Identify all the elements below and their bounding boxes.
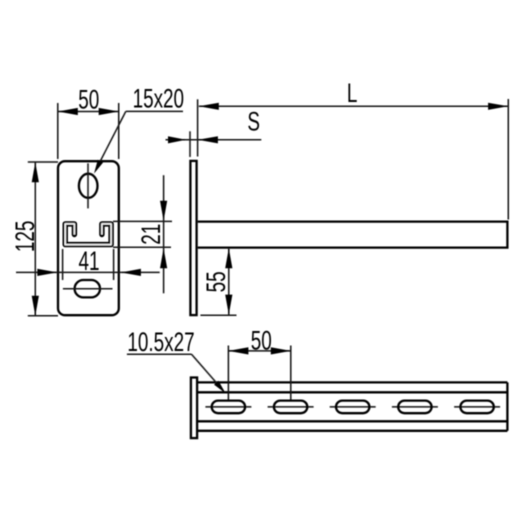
bottom view slot 5 centerline [454, 406, 500, 408]
bottom view slot 5 (10.5x27) [460, 401, 493, 414]
dim L right arrow [488, 103, 508, 110]
bottom view slot 1 centerline [205, 406, 251, 408]
svg-text:L: L [347, 77, 358, 107]
side view cantilever arm [198, 222, 508, 248]
svg-text:S: S [247, 106, 260, 136]
dim 55 bottom extension line [200, 314, 236, 316]
svg-text:21: 21 [135, 224, 165, 245]
bottom view slot 4 (10.5x27) [398, 401, 431, 414]
dim 55 top arrow (points up) [225, 248, 232, 268]
bottom dim 50 dimension line [228, 350, 290, 352]
dim S dimension line right part [198, 139, 261, 141]
front view top hole 15x20 [79, 174, 98, 198]
dim 41 dimension line [16, 271, 160, 273]
svg-text:55: 55 [200, 271, 230, 292]
bottom view channel right end [506, 382, 508, 430]
bottom view channel outer bottom edge [198, 430, 508, 432]
bottom view channel inner bottom edge [198, 420, 508, 422]
dim S left arrow (points right) [168, 136, 186, 143]
bottom view slot 1 (10.5x27) [212, 401, 245, 414]
dim 21 bottom arrow (points up) [160, 248, 167, 268]
bottom view channel outer top edge [198, 381, 508, 383]
bottom view channel inner top edge [198, 391, 508, 393]
dim 55 dimension line [228, 248, 230, 315]
dim 50 right arrow [99, 108, 119, 115]
dim 21 top extension line [113, 220, 172, 222]
front view bottom hole horizontal centerline [63, 288, 113, 290]
dim 55 bottom arrow (points down) [225, 295, 232, 315]
dim 50 left arrow [58, 108, 78, 115]
dim 21 top arrow (points down) [160, 201, 167, 221]
dim 125 bottom extension line [28, 315, 58, 317]
bottom dim 50 left extension line [227, 346, 229, 400]
bottom dim 50 right extension line [290, 346, 292, 400]
dim 50 left extension line [57, 103, 59, 159]
front view mounting plate outline [58, 161, 119, 315]
bottom view slot 2 centerline [268, 406, 314, 408]
svg-text:125: 125 [9, 221, 39, 253]
svg-text:50: 50 [78, 84, 99, 114]
dim 50 right extension line [118, 103, 120, 159]
dim 41 left extension line [62, 249, 64, 280]
dim 125 top arrow [32, 162, 39, 182]
dim S dimension line left part [166, 139, 199, 141]
label 15x20 leader arrow [94, 160, 103, 174]
front view top hole vertical centerline [87, 163, 89, 208]
dim 125 bottom arrow [32, 296, 39, 316]
dim 50 dimension line [58, 111, 119, 113]
svg-text:41: 41 [79, 246, 100, 276]
front view bottom slotted hole [75, 280, 100, 297]
dim 41 right extension line [113, 249, 115, 280]
svg-text:10.5x27: 10.5x27 [127, 327, 194, 357]
front view strut channel profile [65, 224, 111, 245]
bottom view end plate [191, 378, 197, 439]
dim 125 dimension line [34, 162, 36, 316]
dim L right extension line [507, 99, 509, 220]
bottom dim 50 right arrow [271, 347, 291, 354]
label 10.5x27 leader arrow [214, 381, 226, 394]
dim L left arrow [199, 103, 219, 110]
dim S left extension line [189, 131, 191, 157]
bottom dim 50 left arrow [228, 347, 248, 354]
label 15x20 underline [126, 110, 183, 112]
dim L left extension line [197, 99, 199, 156]
dim 21 bottom extension line [113, 246, 171, 248]
bottom view slot 2 (10.5x27) [274, 401, 307, 414]
label 10.5x27 underline [127, 353, 192, 355]
svg-text:50: 50 [251, 325, 272, 355]
dim 21 dimension line [163, 175, 165, 293]
side view mounting plate [190, 161, 196, 315]
bottom view slot 4 centerline [392, 406, 438, 408]
dim S right arrow (points left) [198, 136, 218, 143]
bottom view slot 3 centerline [330, 406, 376, 408]
dim L dimension line [199, 105, 508, 107]
label 10.5x27 leader line [192, 354, 224, 390]
dim 41 left arrow (points right) [37, 269, 57, 276]
dim 41 right arrow (points left) [121, 269, 141, 276]
label 15x20 leader line [96, 111, 126, 169]
svg-text:15x20: 15x20 [133, 83, 185, 113]
bottom view slot 3 (10.5x27) [336, 401, 369, 414]
dim 125 top extension line [28, 161, 58, 163]
